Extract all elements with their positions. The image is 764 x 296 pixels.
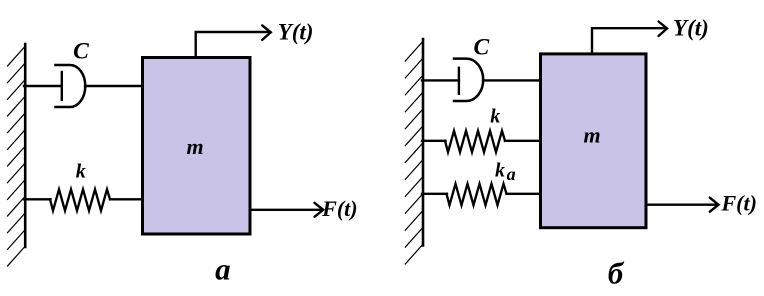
rod: spring k_a to mass (right) <box>507 193 542 195</box>
wall W1 (left) <box>24 44 27 247</box>
arrowhead F(t) (left) <box>315 203 324 217</box>
rod: wall to damper piston (right) <box>422 79 459 81</box>
svg-text:C: C <box>474 34 490 60</box>
arrowhead Y(t) (left) <box>262 25 271 40</box>
svg-text:F(t): F(t) <box>720 191 756 216</box>
damper C cylinder (left) <box>56 65 86 107</box>
output rod Y (left) <box>196 32 270 57</box>
rod: spring k to mass (left) <box>110 198 143 200</box>
wall W2 hatching (right) <box>405 42 422 264</box>
rod: wall to spring k (right) <box>422 140 446 142</box>
rod: wall to damper piston (left) <box>24 85 62 87</box>
arrowhead Y(t) (right) <box>659 22 668 37</box>
svg-text:m: m <box>186 134 203 159</box>
mass m block (left) <box>143 58 251 235</box>
output rod Y (right) <box>592 28 666 53</box>
rod: wall to spring k_a (right) <box>422 193 447 195</box>
svg-text:k: k <box>76 161 86 183</box>
svg-text:Y(t): Y(t) <box>673 16 709 41</box>
svg-text:Y(t): Y(t) <box>278 19 314 44</box>
spring k_a (right) <box>447 184 507 205</box>
svg-text:a: a <box>507 164 516 184</box>
svg-text:k: k <box>490 105 500 127</box>
svg-text:C: C <box>73 39 89 65</box>
rod: spring k to mass (right) <box>505 140 541 142</box>
rod: damper to mass (left) <box>85 85 143 87</box>
arrowhead F(t) (right) <box>710 198 719 212</box>
mass m block (right) <box>541 54 647 228</box>
svg-text:m: m <box>583 123 600 148</box>
force line F (left) <box>250 209 322 211</box>
damper C piston (right) <box>458 68 460 94</box>
wall W1 hatching (left) <box>8 47 25 266</box>
label k_a (right) <box>495 160 516 184</box>
svg-text:б: б <box>608 256 625 291</box>
damper C cylinder (right) <box>454 59 483 101</box>
rod: damper to mass (right) <box>483 79 541 81</box>
spring k (right) <box>445 131 505 152</box>
spring k (left) <box>50 189 110 210</box>
svg-text:а: а <box>215 252 231 287</box>
svg-text:k: k <box>495 160 505 182</box>
svg-text:F(t): F(t) <box>321 196 357 221</box>
wall W2 (right) <box>422 39 425 246</box>
force line F (right) <box>646 203 717 205</box>
damper C piston (left) <box>61 72 63 100</box>
rod: wall to spring k (left) <box>24 198 51 200</box>
